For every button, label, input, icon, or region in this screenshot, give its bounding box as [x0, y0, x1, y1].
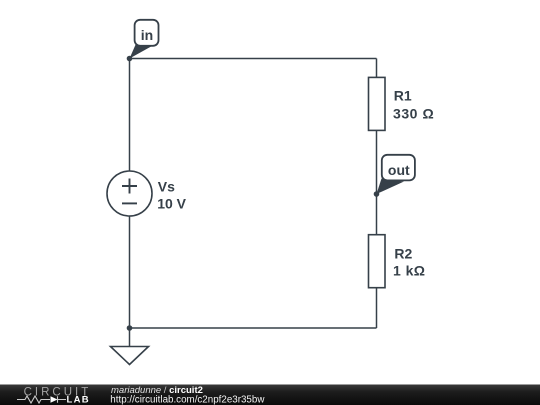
wire top rail [130, 58, 377, 60]
wire bottom rail [130, 327, 377, 329]
node ground junction [127, 325, 133, 331]
footer logo resistor zigzag and diode [17, 396, 50, 403]
svg-text:330 Ω: 330 Ω [393, 106, 434, 122]
svg-text:out: out [388, 162, 410, 178]
wire right rail upper [376, 59, 378, 78]
svg-text:Vs: Vs [158, 178, 175, 194]
wire right rail lower [376, 288, 378, 328]
label Vs value [157, 178, 186, 211]
ground [111, 347, 149, 365]
svg-text:http://circuitlab.com/c2npf2e3: http://circuitlab.com/c2npf2e3r35bw [110, 394, 265, 405]
wire left rail upper [129, 59, 131, 172]
svg-text:R1: R1 [394, 88, 412, 104]
voltage source Vs [107, 171, 152, 216]
resistor R1 [369, 77, 386, 130]
wire left rail lower [129, 216, 131, 328]
resistor R2 [369, 235, 386, 288]
footer bar [0, 385, 540, 405]
node in [127, 56, 133, 62]
label R2 value [393, 245, 426, 278]
net flag out [377, 155, 415, 194]
svg-text:1 kΩ: 1 kΩ [393, 263, 426, 279]
wire right rail middle [376, 130, 378, 234]
label R1 value [393, 88, 434, 122]
svg-text:R2: R2 [394, 245, 412, 261]
svg-text:10 V: 10 V [157, 195, 186, 211]
svg-text:in: in [141, 27, 153, 43]
wire ground stem [129, 328, 131, 347]
svg-text:LAB: LAB [67, 394, 90, 405]
net flag in [130, 20, 159, 59]
node out [374, 191, 380, 197]
